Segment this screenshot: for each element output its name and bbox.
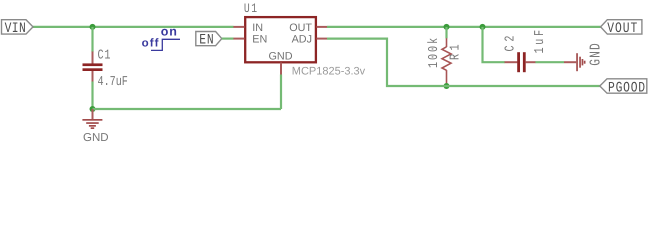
ground symbol below C1	[82, 109, 102, 129]
svg-text:VIN: VIN	[5, 21, 27, 37]
junction on VIN net at C1 top	[90, 24, 96, 30]
flag VIN	[2, 20, 34, 37]
svg-text:100k: 100k	[427, 36, 442, 68]
svg-text:IN: IN	[252, 22, 263, 34]
svg-text:PGOOD: PGOOD	[608, 81, 646, 97]
svg-text:4.7uF: 4.7uF	[98, 75, 128, 90]
ground symbol right of C2	[564, 53, 586, 71]
annotation off/on enable waveform	[142, 25, 180, 51]
svg-text:C2: C2	[504, 32, 519, 52]
svg-text:VOUT: VOUT	[607, 21, 638, 37]
resistor R1	[442, 38, 451, 84]
wire C2 top connection from VOUT net	[483, 27, 505, 62]
pin IN of U1	[233, 26, 244, 28]
svg-text:OUT: OUT	[289, 22, 312, 34]
pin EN of U1	[233, 38, 244, 40]
svg-text:EN: EN	[199, 33, 214, 49]
wire ground run to U1 GND pin	[93, 108, 282, 110]
svg-text:ADJ: ADJ	[292, 34, 312, 46]
capacitor C1	[83, 52, 103, 83]
wire net PGOOD from U1 ADJ pin to flag	[327, 39, 600, 86]
wire C1 bottom to ground node	[91, 82, 93, 110]
capacitor C2	[505, 52, 536, 72]
svg-text:off: off	[142, 38, 160, 50]
flag EN	[196, 32, 222, 49]
junction on VOUT net at C2	[480, 24, 486, 30]
flag PGOOD	[600, 79, 647, 97]
junction on VOUT net at R1	[444, 24, 450, 30]
wire C2 to ground symbol	[535, 61, 564, 63]
svg-text:GND: GND	[83, 132, 109, 144]
svg-text:GND: GND	[587, 42, 604, 66]
svg-text:EN: EN	[252, 34, 267, 46]
junction at C1 / GND node	[90, 106, 96, 112]
wire R1 bottom connection	[445, 84, 447, 86]
svg-text:GND: GND	[269, 51, 293, 63]
wire net EN from flag to U1 EN pin	[222, 37, 234, 39]
wire U1 GND riser	[280, 75, 282, 110]
svg-text:1uF: 1uF	[533, 27, 548, 53]
svg-text:U1: U1	[244, 1, 259, 16]
IC U1 body	[245, 17, 316, 62]
svg-text:C1: C1	[98, 49, 112, 64]
pin OUT of U1	[317, 26, 328, 28]
wire R1 top connection	[445, 27, 447, 39]
svg-text:R1: R1	[448, 41, 463, 60]
junction on PGOOD net at R1	[444, 83, 450, 89]
flag VOUT	[601, 20, 642, 37]
pin ADJ of U1	[317, 38, 328, 40]
pin GND of U1	[280, 63, 282, 75]
svg-text:MCP1825-3.3v: MCP1825-3.3v	[292, 65, 366, 77]
wire C1 top connection	[91, 27, 93, 52]
wire net VIN from flag to U1 IN pin	[33, 26, 234, 28]
svg-text:on: on	[161, 25, 178, 39]
wire net VOUT from U1 OUT pin to flag	[327, 26, 601, 28]
